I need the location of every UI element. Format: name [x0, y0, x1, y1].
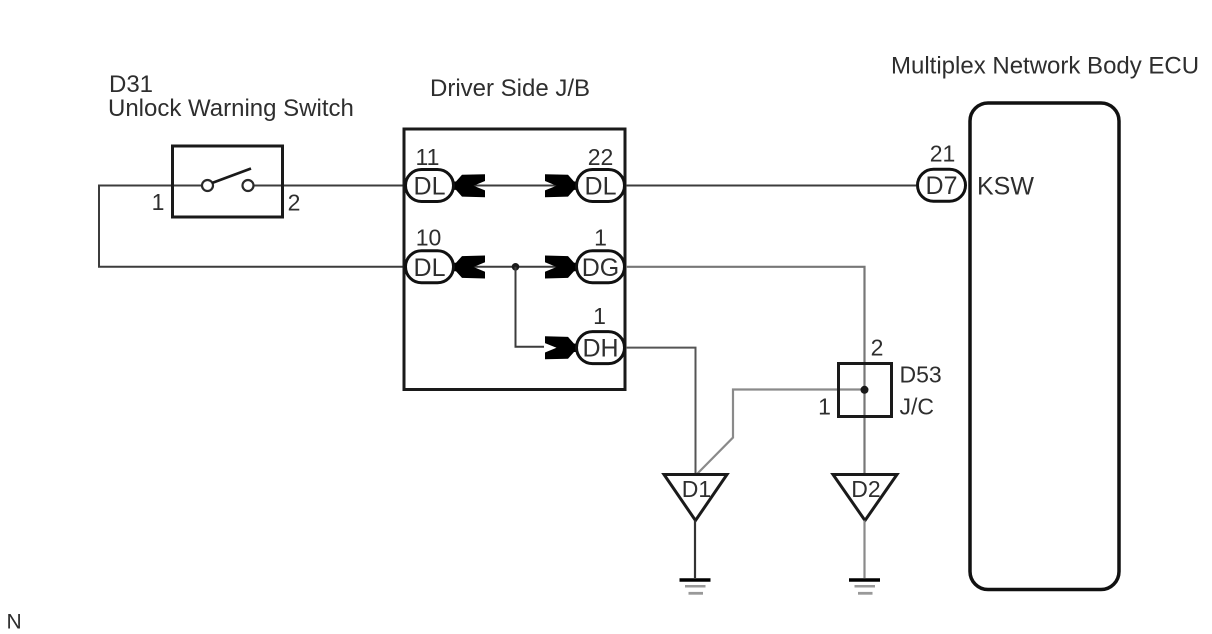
- wire D1 to ground: [694, 521, 696, 579]
- Multiplex Network Body ECU box: [970, 103, 1119, 590]
- svg-text:2: 2: [288, 190, 301, 216]
- ground connector D1 triangle: [664, 475, 727, 521]
- svg-text:DH: DH: [582, 335, 618, 363]
- switch contact circle right: [243, 180, 254, 191]
- arrow right row1: [545, 174, 577, 197]
- svg-text:D7: D7: [926, 172, 958, 200]
- wire DH to D1: [626, 348, 696, 474]
- wire row2 DG to J/C vertical: [626, 267, 865, 474]
- junction dot row2: [512, 263, 520, 271]
- switch D31 box: [173, 146, 283, 217]
- arrow left row1: [454, 174, 486, 197]
- svg-text:Unlock Warning Switch: Unlock Warning Switch: [108, 95, 354, 122]
- wire D2 to ground: [863, 521, 865, 579]
- svg-text:N: N: [7, 611, 22, 634]
- svg-text:1: 1: [152, 189, 165, 215]
- svg-text:DL: DL: [414, 254, 446, 282]
- wire J/C pin1 branch to D1: [697, 390, 861, 475]
- arrow right row3: [545, 336, 577, 359]
- connector oval DH pin1: [577, 332, 625, 364]
- svg-text:D31: D31: [109, 71, 153, 98]
- connector oval DL pin10: [406, 251, 454, 283]
- connector oval DL pin11: [406, 170, 454, 202]
- wire row1 DL22 to D7: [626, 185, 916, 187]
- connector oval DL pin22: [577, 170, 625, 202]
- svg-text:Driver Side J/B: Driver Side J/B: [430, 75, 590, 102]
- switch contact circle left: [202, 180, 213, 191]
- svg-text:21: 21: [930, 141, 956, 167]
- svg-text:2: 2: [871, 335, 884, 361]
- svg-text:10: 10: [416, 225, 442, 251]
- Driver Side J/B box: [404, 129, 625, 390]
- junction dot D53: [861, 386, 869, 394]
- connector oval DG pin1: [577, 251, 625, 283]
- svg-text:1: 1: [593, 303, 606, 329]
- wire junction to DH arrow: [516, 267, 545, 347]
- switch lever: [212, 169, 251, 184]
- ground symbol D1: [680, 580, 711, 593]
- arrow left row2: [454, 256, 486, 279]
- svg-text:22: 22: [588, 144, 614, 170]
- svg-text:1: 1: [818, 394, 831, 420]
- svg-text:D2: D2: [851, 476, 880, 502]
- svg-text:DL: DL: [414, 173, 446, 201]
- ground connector D2 triangle: [833, 475, 897, 521]
- svg-text:11: 11: [416, 144, 440, 170]
- svg-text:Multiplex Network Body ECU: Multiplex Network Body ECU: [891, 53, 1199, 80]
- wire row1 inside J/B: [454, 185, 576, 187]
- ground symbol D2: [849, 580, 880, 593]
- svg-text:DL: DL: [585, 173, 617, 201]
- wire switch pin1 loop left: [99, 186, 404, 267]
- arrow right row2: [545, 256, 577, 279]
- svg-text:KSW: KSW: [977, 173, 1034, 201]
- svg-text:1: 1: [594, 225, 607, 251]
- svg-text:DG: DG: [582, 254, 620, 282]
- connector oval D7 pin21: [918, 169, 966, 201]
- svg-text:D53: D53: [900, 362, 942, 388]
- wire row2 inside J/B: [454, 266, 576, 268]
- junction connector D53 J/C box: [839, 364, 892, 417]
- wire switch pin2 to DL11: [254, 185, 405, 187]
- svg-text:D1: D1: [682, 476, 711, 502]
- svg-text:J/C: J/C: [900, 394, 935, 420]
